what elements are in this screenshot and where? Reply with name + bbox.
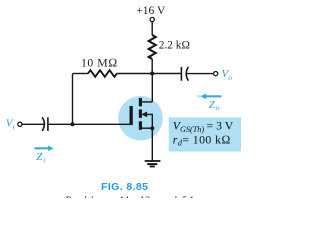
svg-text:Z: Z <box>209 99 216 111</box>
svg-text:+16 V: +16 V <box>136 5 166 17</box>
svg-text:i: i <box>43 155 45 164</box>
svg-text:2.2 kΩ: 2.2 kΩ <box>159 40 190 52</box>
svg-text:FIG. 8.85: FIG. 8.85 <box>101 181 148 193</box>
svg-text:o: o <box>228 73 232 82</box>
svg-text:10 MΩ: 10 MΩ <box>81 56 118 69</box>
svg-text:rd= 100 kΩ: rd= 100 kΩ <box>173 132 231 147</box>
svg-text:o: o <box>216 103 220 112</box>
svg-text:i: i <box>12 123 14 132</box>
svg-text:Problems 41, 42, and 54: Problems 41, 42, and 54 <box>64 195 194 198</box>
svg-text:Z: Z <box>36 151 43 163</box>
